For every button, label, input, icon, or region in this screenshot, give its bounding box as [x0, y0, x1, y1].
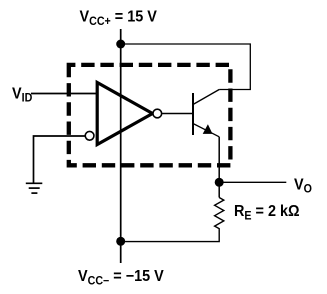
wire collector feed loop: [121, 44, 251, 90]
output bubble: [153, 109, 162, 118]
wire VCC+ vertical rail: [120, 29, 122, 263]
node junction at VCC+: [116, 40, 125, 49]
ground: [26, 183, 43, 193]
transistor Q1 base bar: [192, 93, 194, 135]
op-amp U1 triangle: [97, 83, 152, 145]
svg-text:RE = 2 kΩ: RE = 2 kΩ: [234, 203, 300, 223]
wire to VO: [219, 181, 286, 183]
transistor Q1 emitter: [193, 124, 219, 137]
node junction at output: [215, 178, 224, 187]
transistor Q1 collector: [193, 90, 219, 105]
resistor RE: [121, 198, 224, 242]
wire emitter down: [218, 137, 220, 198]
node junction at VCC-: [116, 237, 125, 246]
wire VID input: [31, 93, 97, 95]
wire inverting input to ground: [34, 136, 86, 183]
inverting input bubble: [85, 131, 94, 140]
dashed box (device outline): [69, 65, 231, 165]
transistor Q1 emitter arrow: [203, 124, 213, 134]
wire output to base: [162, 113, 193, 115]
